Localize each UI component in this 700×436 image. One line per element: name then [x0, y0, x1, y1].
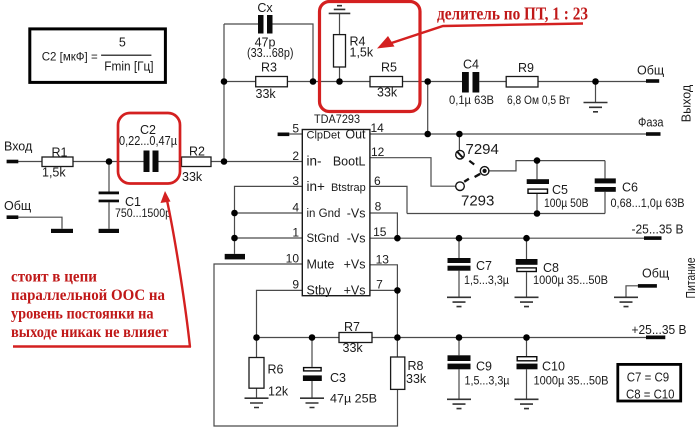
resistor R9	[506, 77, 538, 88]
wire R3 row	[224, 81, 256, 83]
capacitor C9	[448, 355, 471, 361]
resistor R4	[334, 35, 346, 67]
svg-text:C6: C6	[622, 181, 638, 195]
switch contact 7294	[456, 150, 465, 159]
resistor R5	[370, 77, 403, 87]
svg-text:Fmin [Гц]: Fmin [Гц]	[104, 60, 153, 74]
equality box C7=C9 C8=C10	[618, 364, 681, 401]
svg-text:1000µ 35...50В: 1000µ 35...50В	[533, 273, 608, 287]
capacitor C6	[595, 178, 616, 183]
wire pin10 Mute loop	[214, 264, 398, 426]
svg-text:0,68...1,0µ 63В: 0,68...1,0µ 63В	[611, 196, 685, 210]
svg-text:0,22...0,47µ: 0,22...0,47µ	[119, 134, 177, 148]
capacitor C1	[99, 192, 119, 195]
node gnd column pin4	[231, 210, 238, 217]
svg-text:+Vs: +Vs	[344, 258, 366, 272]
svg-text:7294: 7294	[466, 141, 499, 158]
wire pin6 Btstrap	[370, 186, 407, 213]
svg-text:Питание: Питание	[684, 257, 698, 298]
svg-text:1,5...3,3µ: 1,5...3,3µ	[465, 374, 510, 388]
ground power common	[614, 297, 638, 306]
wire pin3 in+ to ground column	[235, 186, 303, 254]
svg-text:100µ 50В: 100µ 50В	[544, 196, 589, 210]
node C10 top	[523, 334, 530, 341]
svg-text:33k: 33k	[406, 372, 427, 386]
svg-text:C2 [мкФ] =: C2 [мкФ] =	[42, 50, 98, 64]
wire pin9 Stby	[257, 290, 303, 337]
node C3 top	[309, 334, 316, 341]
wire -Vs rail	[370, 237, 644, 239]
ground bar input common	[51, 229, 73, 233]
svg-text:BootL: BootL	[333, 155, 366, 169]
svg-text:-25...35 В: -25...35 В	[632, 222, 684, 237]
wire R6 leads	[256, 338, 258, 358]
node C7 top	[456, 235, 463, 242]
svg-text:C5: C5	[552, 183, 568, 197]
svg-text:уровень постоянки на: уровень постоянки на	[11, 306, 154, 323]
wire C6 leads	[604, 161, 606, 179]
node feedback left	[221, 78, 228, 85]
svg-text:33k: 33k	[256, 87, 277, 101]
node C5 bottom	[534, 210, 541, 217]
svg-text:33k: 33k	[343, 341, 364, 355]
ground C7	[447, 297, 471, 306]
capacitor C3	[304, 368, 322, 371]
svg-text:Out: Out	[345, 128, 366, 142]
node output ground	[592, 78, 599, 85]
svg-text:Фаза: Фаза	[638, 116, 664, 130]
svg-text:выходе никак не влияет: выходе никак не влияет	[11, 324, 169, 341]
svg-text:in Gnd: in Gnd	[307, 208, 341, 220]
red box around R4 R5	[320, 2, 421, 112]
ground C10	[515, 399, 539, 408]
node -Vs pin8	[394, 235, 401, 242]
wire feedback left column	[223, 24, 225, 162]
svg-text:Общ: Общ	[637, 64, 664, 78]
svg-text:Общ: Общ	[4, 199, 31, 213]
wire feedback to output	[427, 82, 429, 135]
svg-text:C10: C10	[542, 360, 565, 374]
switch pole	[480, 167, 489, 176]
svg-text:C4: C4	[463, 58, 479, 72]
svg-text:+25...35 В: +25...35 В	[632, 322, 687, 337]
ground R6	[245, 398, 269, 407]
svg-text:5: 5	[292, 122, 299, 136]
terminal -25...35 В	[644, 236, 662, 240]
svg-text:7: 7	[376, 278, 383, 292]
resistor R8	[391, 357, 405, 389]
switch contact 7293	[456, 182, 465, 191]
svg-text:33k: 33k	[182, 170, 203, 184]
svg-text:47µ 25В: 47µ 25В	[330, 392, 377, 406]
ground C8	[515, 297, 539, 306]
wire pin12 BootL to switch 7293	[370, 158, 456, 187]
svg-text:8: 8	[375, 199, 382, 213]
node R8 top	[394, 334, 401, 341]
resistor R3	[256, 77, 288, 87]
svg-text:Общ: Общ	[642, 267, 669, 281]
svg-text:in+: in+	[307, 179, 326, 194]
node input/C1 junction	[106, 158, 113, 165]
wire pin1 stub	[235, 237, 303, 239]
capacitor C10	[517, 357, 537, 361]
svg-text:(33...68p): (33...68p)	[247, 46, 294, 60]
node feedback right	[310, 78, 317, 85]
svg-text:2: 2	[292, 149, 299, 163]
wire C8 leads	[526, 238, 528, 259]
ground bar C1	[99, 229, 119, 233]
ground output	[584, 103, 608, 112]
ground C9	[447, 399, 471, 408]
wire output ground lead	[595, 82, 597, 103]
wire Cx top row	[224, 23, 258, 25]
wire R8 top lead	[396, 338, 398, 358]
terminal Вход	[7, 160, 19, 164]
red arrow to C2	[167, 198, 191, 347]
svg-text:-Vs: -Vs	[347, 232, 366, 246]
wire +Vs rail	[257, 337, 340, 339]
resistor R7	[339, 333, 372, 343]
wire C3 leads	[311, 338, 313, 367]
svg-text:Stby: Stby	[307, 284, 333, 298]
wire C1 branch	[108, 162, 110, 192]
svg-text:Выход: Выход	[680, 84, 694, 122]
svg-text:R1: R1	[52, 146, 68, 160]
svg-text:3: 3	[292, 174, 299, 188]
node divider output	[424, 78, 431, 85]
svg-text:-Vs: -Vs	[347, 207, 366, 221]
svg-text:6,8 Ом 0,5 Вт: 6,8 Ом 0,5 Вт	[507, 93, 570, 107]
resistor R1	[42, 157, 73, 167]
svg-text:C9: C9	[476, 360, 492, 374]
terminal Общ power	[638, 284, 657, 288]
wire C7 leads	[458, 238, 460, 258]
svg-text:стоит в цепи: стоит в цепи	[11, 269, 97, 286]
node in- junction	[221, 158, 228, 165]
wire to switch 7294	[458, 134, 460, 150]
node out row switch	[456, 131, 463, 138]
svg-text:Вход: Вход	[4, 140, 33, 154]
node C9 top	[456, 334, 463, 341]
svg-text:7293: 7293	[461, 193, 494, 210]
svg-text:Btstrap: Btstrap	[331, 182, 366, 194]
svg-text:C7 = C9: C7 = C9	[627, 370, 670, 385]
svg-text:R2: R2	[189, 145, 205, 159]
svg-text:1,5k: 1,5k	[350, 46, 374, 60]
svg-text:33k: 33k	[377, 86, 398, 100]
svg-text:13: 13	[376, 252, 390, 266]
op-amp U1 TDA7293 body	[302, 130, 370, 296]
wire power ground lead	[626, 286, 638, 298]
red box around C2	[118, 113, 180, 184]
svg-text:1000µ 35...50В: 1000µ 35...50В	[534, 374, 609, 388]
svg-text:параллельной ООС на: параллельной ООС на	[11, 287, 165, 304]
svg-text:1,5k: 1,5k	[42, 166, 66, 180]
svg-text:9: 9	[292, 278, 299, 292]
svg-text:R6: R6	[268, 363, 284, 377]
svg-text:R8: R8	[408, 359, 424, 373]
node C5 top	[534, 157, 541, 164]
svg-text:R9: R9	[518, 61, 534, 75]
svg-text:0,1µ 63В: 0,1µ 63В	[449, 93, 494, 107]
svg-text:10: 10	[286, 251, 300, 265]
terminal Общ input	[7, 215, 19, 219]
ground bar IC signal ground	[225, 254, 245, 260]
wire pin7 stub	[370, 289, 398, 291]
svg-text:14: 14	[371, 121, 385, 135]
svg-text:12: 12	[371, 145, 385, 159]
svg-text:TDA7293: TDA7293	[314, 112, 360, 126]
svg-text:1: 1	[292, 226, 299, 240]
wire C9 leads	[458, 338, 460, 356]
red underline of note	[13, 345, 191, 348]
svg-text:12k: 12k	[268, 385, 289, 399]
svg-text:C8 = C10: C8 = C10	[626, 387, 675, 402]
formula box	[30, 29, 166, 83]
red arrow to divider	[390, 24, 583, 44]
wire pin8 -Vs	[370, 213, 398, 238]
wire input row	[18, 161, 42, 163]
node pin7	[394, 287, 401, 294]
wire output row	[370, 133, 646, 135]
wire R4 leads	[339, 14, 341, 35]
resistor R6	[249, 358, 264, 389]
svg-text:750...1500p: 750...1500p	[115, 206, 171, 220]
svg-text:5: 5	[119, 35, 126, 49]
resistor R2	[182, 157, 212, 167]
wire input ground lead	[18, 217, 62, 229]
capacitor C4	[462, 72, 469, 93]
capacitor Cx	[258, 15, 264, 34]
svg-text:C7: C7	[476, 259, 492, 273]
svg-text:R5: R5	[381, 61, 397, 75]
capacitor C7	[448, 258, 471, 263]
switch dashes	[469, 161, 474, 165]
wire C5 leads	[536, 161, 538, 180]
svg-text:Mute: Mute	[307, 257, 335, 271]
terminal Общ output	[646, 79, 659, 83]
svg-text:R3: R3	[261, 61, 277, 75]
ground above R4 (inverted)	[329, 6, 351, 14]
wire bootstrap bottom rail	[407, 213, 605, 215]
svg-text:делитель по ПТ, 1 : 23: делитель по ПТ, 1 : 23	[437, 4, 588, 24]
node C8 top	[523, 235, 530, 242]
svg-text:Cx: Cx	[257, 1, 273, 15]
node out row left	[424, 131, 431, 138]
wire switch pole to caps	[489, 161, 605, 171]
svg-text:in-: in-	[307, 154, 322, 169]
svg-text:1,5...3,3µ: 1,5...3,3µ	[464, 273, 509, 287]
node gnd column pin1	[231, 235, 238, 242]
svg-text:R7: R7	[344, 320, 360, 334]
svg-text:15: 15	[373, 225, 387, 239]
wire pin5 stub	[289, 133, 302, 135]
svg-text:C3: C3	[330, 371, 346, 385]
wire C10 leads	[526, 338, 528, 357]
capacitor C8	[516, 259, 538, 265]
svg-text:ClpDet: ClpDet	[307, 130, 341, 142]
terminal +25...35 В	[646, 336, 665, 340]
svg-text:4: 4	[292, 200, 299, 214]
svg-text:StGnd: StGnd	[307, 233, 340, 245]
pin 5 open terminal	[278, 133, 290, 137]
terminal Фаза	[646, 132, 661, 136]
capacitor C5	[527, 179, 549, 184]
wire pin4 stub	[235, 212, 303, 214]
svg-text:6: 6	[374, 174, 381, 188]
node R4 bottom	[336, 78, 343, 85]
svg-text:+Vs: +Vs	[344, 284, 366, 298]
node R6 top	[253, 334, 260, 341]
capacitor C2	[144, 151, 150, 173]
ground C3	[300, 398, 324, 407]
wire pin13 +Vs	[370, 265, 398, 338]
